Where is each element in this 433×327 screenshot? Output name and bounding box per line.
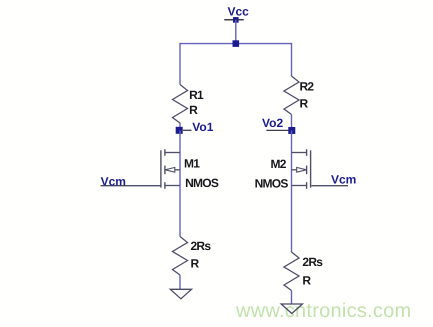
ground right xyxy=(281,304,302,314)
svg-text:Vcm: Vcm xyxy=(331,172,356,186)
wire R1 to Vo1 xyxy=(179,123,181,131)
resistor 2Rs right xyxy=(284,252,323,291)
node Vo2 xyxy=(262,116,295,134)
wire 2Rs to ground right xyxy=(291,291,293,305)
ground left xyxy=(170,289,191,299)
svg-text:R: R xyxy=(189,103,198,117)
node junction at rail xyxy=(233,40,240,47)
wire 2Rs to ground xyxy=(179,275,181,289)
wire Vo2 to M2 drain xyxy=(291,131,293,153)
svg-text:Vo2: Vo2 xyxy=(262,116,283,130)
svg-text:M2: M2 xyxy=(271,157,287,171)
svg-text:www.cntronics.com: www.cntronics.com xyxy=(235,300,411,322)
svg-text:R2: R2 xyxy=(300,79,315,93)
svg-text:2Rs: 2Rs xyxy=(191,239,212,253)
wire M2 source to 2Rs xyxy=(291,186,293,253)
wire Vo1 to M1 drain xyxy=(179,131,181,153)
wire rail to R1 xyxy=(179,43,181,85)
svg-text:R1: R1 xyxy=(189,88,204,102)
transistor M1 xyxy=(161,149,219,190)
svg-text:2Rs: 2Rs xyxy=(302,255,323,269)
resistor R1 xyxy=(173,85,205,124)
transistor M2 xyxy=(255,149,311,190)
svg-text:M1: M1 xyxy=(184,156,200,170)
svg-text:Vo1: Vo1 xyxy=(192,120,213,134)
wire Vcm left gate lead xyxy=(101,185,161,187)
svg-text:R: R xyxy=(191,256,200,270)
wire rail to R2 xyxy=(291,43,293,76)
svg-text:R: R xyxy=(302,274,311,288)
svg-text:R: R xyxy=(300,96,309,110)
svg-text:Vcm: Vcm xyxy=(101,174,126,188)
power symbol Vcc xyxy=(224,4,249,22)
wire top rail xyxy=(180,43,292,45)
resistor R2 xyxy=(284,76,314,115)
resistor 2Rs left xyxy=(173,237,212,276)
wire M1 source to 2Rs xyxy=(179,186,181,237)
wire Vcm right gate lead xyxy=(311,185,348,187)
svg-text:NMOS: NMOS xyxy=(255,176,289,190)
svg-text:Vcc: Vcc xyxy=(228,4,250,18)
wire Vcc lead xyxy=(235,20,237,44)
wire R2 to Vo2 xyxy=(291,115,293,132)
node Vo1 xyxy=(176,120,214,134)
svg-text:NMOS: NMOS xyxy=(185,176,219,190)
